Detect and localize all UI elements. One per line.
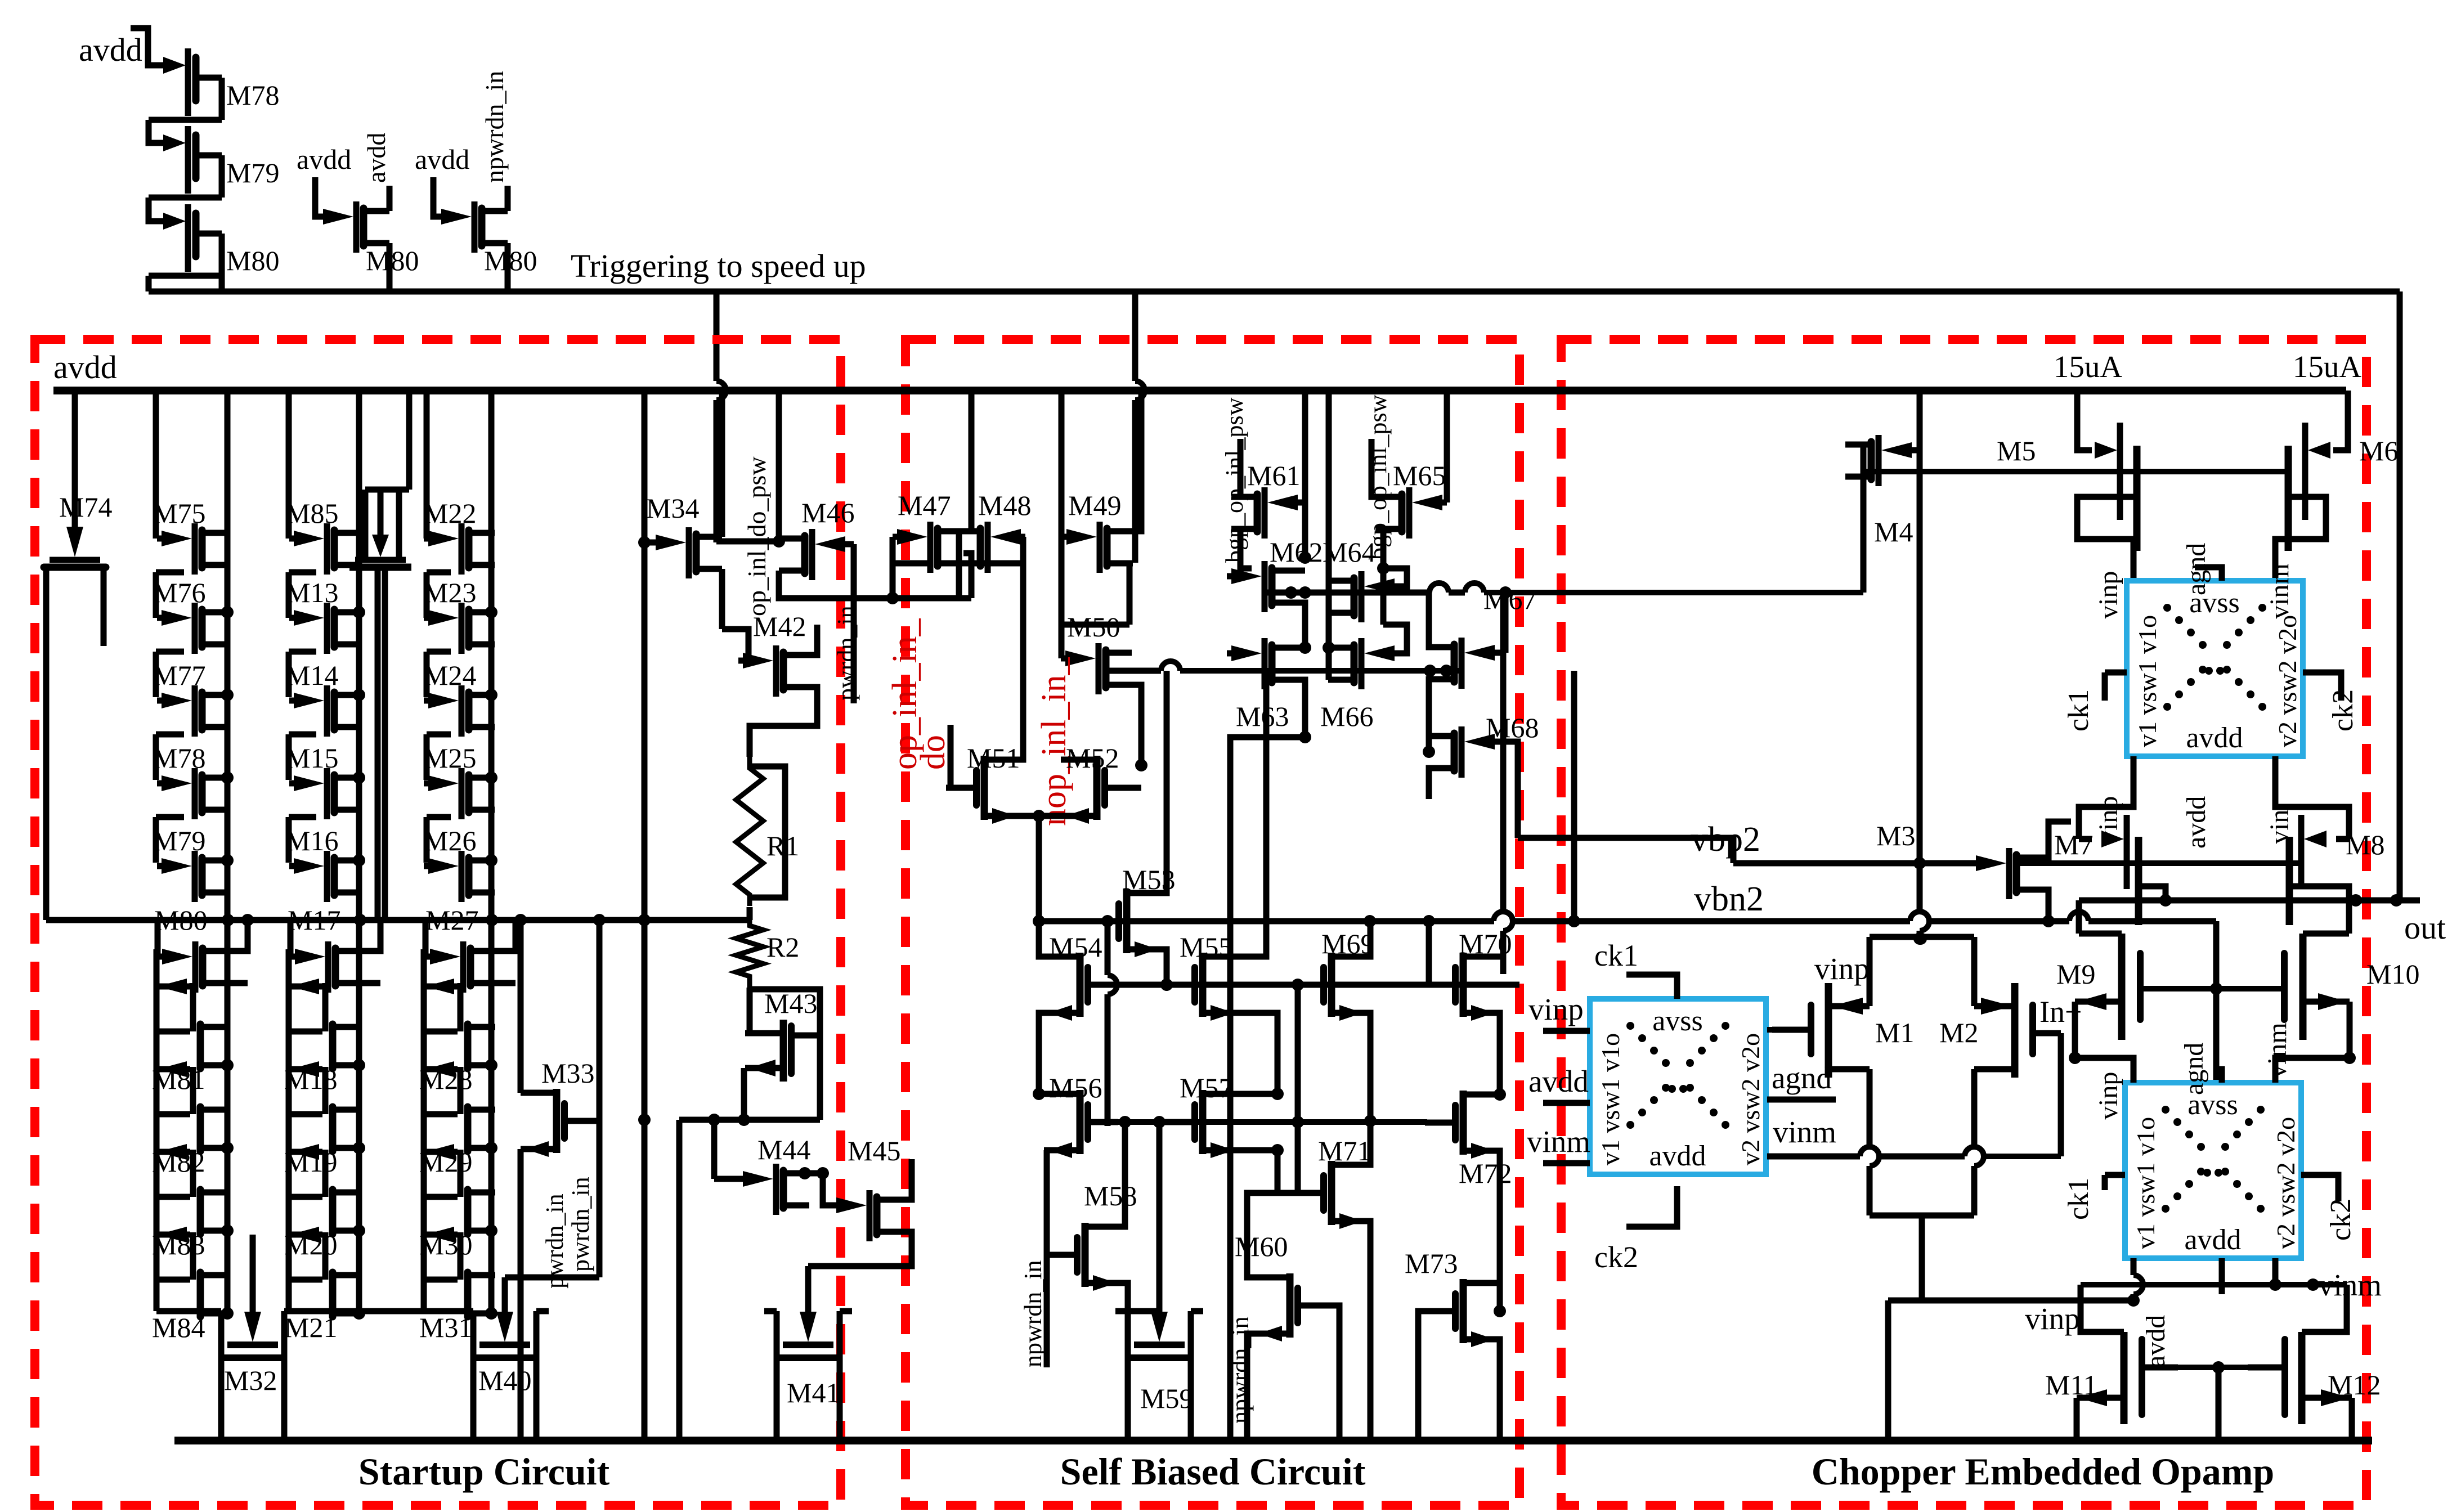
transistor M31 xyxy=(424,1232,458,1238)
wire M63 drain xyxy=(1272,645,1305,651)
svg-text:M4: M4 xyxy=(1874,516,1913,548)
transistor M45 xyxy=(832,1203,849,1209)
wire M18 gate vertical xyxy=(286,949,292,986)
wire M79 gate feedback xyxy=(149,198,151,221)
transistor M67 xyxy=(1482,650,1499,656)
wire M51 drain xyxy=(1020,537,1023,760)
transistor M70 xyxy=(1425,982,1453,988)
wire vinp stub chopper2 xyxy=(1543,1028,1590,1034)
wire M15 junction xyxy=(353,771,365,784)
wire M65 drain xyxy=(1371,439,1402,497)
wire M25 source loop xyxy=(427,814,451,820)
transistor M33 xyxy=(567,1118,595,1124)
wire M76 junction xyxy=(221,606,234,618)
transistor M6 xyxy=(2333,391,2348,450)
svg-text:ck2: ck2 xyxy=(1594,1240,1638,1274)
transistor M59 xyxy=(1156,1122,1163,1321)
wire M80 row leads xyxy=(158,920,170,957)
transistor M10 xyxy=(2299,934,2307,1040)
wire M85 gate from rail xyxy=(286,391,292,539)
svg-text:M62: M62 xyxy=(1270,536,1323,568)
transistor M14 xyxy=(289,698,306,704)
wire M23 junction xyxy=(485,606,497,618)
wire M43 gate hook xyxy=(750,989,820,1120)
wire M80c drain xyxy=(505,186,511,211)
svg-text:M3: M3 xyxy=(1876,820,1915,851)
transistor M77 xyxy=(157,698,174,704)
transistor M48 xyxy=(1008,534,1025,540)
wire M27 leads xyxy=(425,920,439,957)
wire M4 gate lead xyxy=(1916,447,1920,454)
svg-text:avdd: avdd xyxy=(415,143,469,175)
wire M66 source xyxy=(1329,677,1354,683)
transistor M29 xyxy=(424,1066,458,1073)
svg-text:vinm: vinm xyxy=(2265,563,2294,619)
transistor M71 xyxy=(1293,1190,1321,1196)
wire M67 gate lead xyxy=(1499,650,1505,656)
box Startup Circuit boundary xyxy=(35,339,841,1505)
chopper block 3 xyxy=(2125,1083,2301,1258)
svg-text:M44: M44 xyxy=(757,1134,810,1165)
wire ck2 lead chopper2 xyxy=(1626,1186,1677,1227)
svg-text:In+: In+ xyxy=(2039,995,2082,1029)
svg-text:v1 vsw1 v1o: v1 vsw1 v1o xyxy=(1596,1033,1625,1165)
svg-text:M58: M58 xyxy=(1084,1180,1137,1212)
svg-text:vbn2: vbn2 xyxy=(1694,880,1764,918)
wire M51 source xyxy=(1020,816,1039,921)
svg-text:Chopper Embedded Opamp: Chopper Embedded Opamp xyxy=(1812,1450,2275,1493)
wire startup bus xyxy=(46,917,750,923)
wire M21 drain join xyxy=(359,1311,360,1317)
wire M78 junction xyxy=(221,771,234,784)
wire M63 gate lead xyxy=(1227,650,1238,657)
wire M48 diode xyxy=(980,537,1023,563)
wire M70 source xyxy=(1463,1013,1500,1094)
wire M14 source loop xyxy=(289,732,316,738)
wire M18 drain join xyxy=(359,1062,360,1069)
svg-text:M50: M50 xyxy=(1067,611,1120,643)
wire M58 drain xyxy=(1085,1122,1125,1227)
transistor M55 xyxy=(1164,982,1193,988)
transistor M72 xyxy=(1425,1120,1453,1126)
svg-text:M79: M79 xyxy=(226,157,279,189)
wire M20 drain join xyxy=(359,1228,360,1234)
wire M55 source xyxy=(1239,1013,1277,1094)
svg-text:M5: M5 xyxy=(1997,435,2036,466)
transistor M44 xyxy=(738,1176,755,1182)
wire M56 source xyxy=(1044,1147,1047,1154)
wire M75 source loop xyxy=(156,569,184,576)
wire M11 source down xyxy=(2074,1398,2080,1441)
wire M71 drain xyxy=(1332,1121,1370,1165)
wire M65 source xyxy=(1383,529,1402,568)
wire M66 gate lead xyxy=(1383,625,1407,653)
svg-text:M12: M12 xyxy=(2328,1369,2381,1401)
svg-text:M66: M66 xyxy=(1320,701,1373,732)
svg-text:M56: M56 xyxy=(1049,1072,1102,1103)
wire vinm stub chopper2 xyxy=(1543,1160,1590,1166)
wire M70 drain xyxy=(1463,957,1503,974)
wire M31 drain join xyxy=(491,1311,495,1317)
svg-text:v2 vsw2 v2o: v2 vsw2 v2o xyxy=(2273,615,2302,747)
wire M72 drain xyxy=(1463,1092,1500,1098)
transistor M8 xyxy=(2336,836,2349,842)
transistor M40 xyxy=(502,1277,508,1321)
transistor M85b vertical xyxy=(406,391,413,490)
svg-text:avdd: avdd xyxy=(1649,1140,1706,1172)
svg-text:ck1: ck1 xyxy=(1594,939,1638,972)
svg-text:M77: M77 xyxy=(153,659,205,691)
wire M51 gate lead xyxy=(946,725,951,788)
wire M85 drain col to rail xyxy=(356,391,362,920)
wire M22 source loop xyxy=(427,569,451,576)
transistor M76 xyxy=(157,615,174,621)
transistor M57 xyxy=(1164,1119,1193,1125)
transistor M49 xyxy=(1062,534,1079,540)
transistor M65 xyxy=(1430,500,1447,506)
wire M23 source loop xyxy=(427,649,451,655)
svg-text:M23: M23 xyxy=(423,577,476,608)
svg-text:M79: M79 xyxy=(153,825,205,856)
wire M29 drain join xyxy=(491,1145,495,1151)
transistor M80 (third) xyxy=(437,214,454,220)
svg-text:M21: M21 xyxy=(284,1312,337,1343)
wire M81 col xyxy=(225,920,231,1313)
svg-text:npwrdn_in: npwrdn_in xyxy=(480,71,509,183)
wire M74 drain down xyxy=(43,645,50,920)
svg-text:M59: M59 xyxy=(1140,1383,1193,1414)
wire M83 drain join xyxy=(227,1228,228,1234)
wire M54 drain loop xyxy=(1039,921,1078,957)
wire M71 gate lead xyxy=(1277,1190,1293,1196)
svg-text:npwrdn_in: npwrdn_in xyxy=(1019,1260,1047,1367)
svg-text:M78: M78 xyxy=(153,742,205,774)
wire R1 bracket xyxy=(750,766,785,898)
wire M34 source xyxy=(719,569,725,629)
transistor M23 xyxy=(424,615,441,621)
wire M30 drain join xyxy=(491,1228,495,1234)
wire M24 source loop xyxy=(427,732,451,738)
wire M63 source xyxy=(1272,680,1305,737)
wire M61 source xyxy=(1240,529,1257,568)
svg-text:M84: M84 xyxy=(152,1312,205,1343)
wire M8 source xyxy=(2289,886,2349,900)
transistor M61 xyxy=(1285,500,1302,506)
transistor M26 xyxy=(424,863,441,869)
svg-text:out: out xyxy=(2404,909,2446,946)
transistor M80 (second) xyxy=(319,214,335,220)
transistor M11 xyxy=(2145,1365,2178,1371)
svg-text:avdd: avdd xyxy=(2186,722,2243,754)
transistor M79 xyxy=(157,863,174,869)
svg-text:M73: M73 xyxy=(1405,1248,1458,1279)
transistor M78 xyxy=(157,780,174,787)
svg-text:v1 vsw1 v1o: v1 vsw1 v1o xyxy=(2131,1117,2160,1249)
wire chopper3 br stub xyxy=(2272,1258,2279,1285)
wire M42 source xyxy=(750,687,817,757)
wire chopper3 bl stub xyxy=(2131,1258,2137,1275)
wire M57 drain loop xyxy=(1203,1091,1277,1097)
svg-text:M25: M25 xyxy=(423,742,476,774)
wire M45 source xyxy=(808,1232,912,1266)
wire M16 junction xyxy=(353,854,365,867)
wire M73 gate lead xyxy=(1418,1311,1425,1441)
transistor M50 xyxy=(1061,656,1078,662)
wire M46 gate lead xyxy=(850,541,854,548)
wire M42 drain xyxy=(809,625,817,655)
transistor M74 xyxy=(72,391,78,536)
node row1990 xyxy=(679,1117,820,1123)
wire M73 source xyxy=(1463,1339,1500,1441)
wire M69 source xyxy=(1332,1013,1370,1121)
svg-text:M61: M61 xyxy=(1247,460,1300,491)
wire M45 gate lead xyxy=(823,1173,832,1205)
wire M84 gate vertical xyxy=(154,1197,160,1235)
wire vbn2 xyxy=(1039,918,1494,925)
wire avdd stub chopper2 xyxy=(1543,1100,1590,1106)
wire M68 drain xyxy=(1429,733,1454,739)
wire M68 source xyxy=(1429,768,1454,799)
wire M72 source xyxy=(1463,1151,1500,1311)
wire v1o out chopper2 xyxy=(1767,1027,1808,1033)
wire M66M70 col xyxy=(1500,596,1507,912)
svg-text:M1: M1 xyxy=(1875,1017,1914,1048)
wire M17 row to M18 xyxy=(322,983,329,986)
wire M9M10 gate bus xyxy=(2140,986,2284,991)
wire chopper1 tc stub xyxy=(2195,567,2222,581)
svg-text:M22: M22 xyxy=(423,497,476,529)
wire M28 col xyxy=(488,920,495,1313)
svg-text:avdd: avdd xyxy=(53,349,117,385)
wire R2 to M43 drain xyxy=(747,988,753,1033)
transistor M75 xyxy=(157,536,174,542)
wire vinm out chopper2 xyxy=(1767,1154,1860,1160)
svg-text:vinp: vinp xyxy=(1814,952,1870,986)
svg-text:Self Biased Circuit: Self Biased Circuit xyxy=(1060,1450,1366,1493)
wire M12 source down xyxy=(2349,1398,2355,1441)
transistor M66 xyxy=(1382,650,1399,657)
svg-text:v1 vsw1 v1o: v1 vsw1 v1o xyxy=(2133,615,2162,747)
transistor M28 xyxy=(424,984,458,990)
wire M69 drain xyxy=(1332,921,1370,957)
wire M45 drain xyxy=(903,1159,912,1200)
wire M31 tail to M40 xyxy=(421,1279,427,1311)
wire M27 row to M28 xyxy=(458,983,464,986)
wire M58 source xyxy=(1121,1283,1159,1311)
wire M46 drain xyxy=(776,391,782,539)
svg-text:avdd: avdd xyxy=(1528,1064,1589,1098)
wire M17 leads xyxy=(290,920,303,957)
svg-text:M26: M26 xyxy=(423,825,476,856)
svg-text:M10: M10 xyxy=(2366,958,2419,990)
resistor R2 xyxy=(736,914,763,988)
wire M4 drain xyxy=(1863,445,1871,491)
wire M55 drain loop xyxy=(1203,671,1266,957)
wire M63 down xyxy=(1230,737,1305,1441)
svg-text:M49: M49 xyxy=(1068,490,1121,521)
wire M44 stubs xyxy=(809,1170,823,1177)
svg-text:agnd: agnd xyxy=(2179,1043,2209,1095)
wire M84 tail to M32 xyxy=(154,1279,160,1311)
wire ck2 lead chopper1 xyxy=(2303,672,2341,701)
transistor M52 xyxy=(1107,785,1135,791)
svg-text:M60: M60 xyxy=(1235,1231,1288,1262)
svg-text:M57: M57 xyxy=(1180,1072,1232,1103)
svg-text:pwrdn_in: pwrdn_in xyxy=(832,605,860,701)
svg-text:vinm: vinm xyxy=(1773,1115,1836,1149)
chopper block 2 xyxy=(1590,999,1766,1174)
wire M49 drain xyxy=(1133,391,1141,531)
transistor M7 xyxy=(2079,836,2092,842)
transistor M41 xyxy=(805,1266,812,1321)
wire M43 source down xyxy=(741,1068,747,1120)
svg-text:M76: M76 xyxy=(153,577,205,608)
transistor M18 xyxy=(289,984,322,990)
transistor M80 (row) xyxy=(158,954,174,960)
transistor M30 xyxy=(424,1149,458,1155)
wire M28 drain join xyxy=(491,1062,495,1069)
wire M54 source xyxy=(1039,1013,1044,1094)
wire M26 junction xyxy=(485,854,497,867)
svg-text:vbp2: vbp2 xyxy=(1691,820,1760,859)
wire M21 gate vertical xyxy=(286,1197,292,1235)
wire M81 drain join xyxy=(227,1062,228,1069)
wire M46 source xyxy=(779,571,839,598)
wire M75 gate from rail xyxy=(153,391,159,539)
wire M82 drain join xyxy=(227,1145,228,1151)
svg-text:vinp: vinp xyxy=(2025,1302,2080,1336)
wire M28 gate vertical xyxy=(421,949,427,986)
wire M60 source xyxy=(1247,1334,1254,1441)
svg-text:M78: M78 xyxy=(226,79,279,111)
wire M5 source xyxy=(2077,497,2137,581)
wire M71 col down xyxy=(1368,1311,1374,1441)
node op_inl_in_do bus xyxy=(839,595,971,602)
transistor M84 xyxy=(156,1232,190,1238)
transistor M68 xyxy=(1482,739,1499,745)
svg-text:pwrdn_in: pwrdn_in xyxy=(567,1177,594,1272)
transistor M25 xyxy=(424,780,441,787)
wire chopper3 tr stub xyxy=(2275,1058,2350,1083)
svg-text:M13: M13 xyxy=(285,577,338,608)
svg-text:avdd: avdd xyxy=(297,143,351,175)
wire M77 source loop xyxy=(156,732,184,738)
svg-text:M32: M32 xyxy=(224,1365,277,1396)
wire trigger tap 1 xyxy=(714,291,720,381)
wire M22 gate from rail xyxy=(424,391,430,539)
svg-text:ck1: ck1 xyxy=(2063,1178,2095,1220)
wire M60 gate lead xyxy=(1328,1305,1339,1441)
svg-text:M2: M2 xyxy=(1939,1017,1978,1048)
wire M24 junction xyxy=(485,689,497,701)
wire tap1 to M46 xyxy=(716,539,779,545)
chopper block 1 xyxy=(2127,581,2303,756)
svg-text:nop_inl_in_: nop_inl_in_ xyxy=(1035,657,1073,826)
transistor M27 xyxy=(425,954,442,960)
svg-text:M15: M15 xyxy=(285,742,338,774)
wire M73 drain xyxy=(1463,1280,1500,1286)
svg-text:avdd: avdd xyxy=(79,32,142,68)
wire M62 source xyxy=(1272,603,1305,648)
wire v2306 xyxy=(1295,985,1301,1122)
transistor M3 xyxy=(1971,860,1988,867)
wire M6 source xyxy=(2275,497,2326,581)
wire M13 junction xyxy=(353,606,365,618)
svg-text:M9: M9 xyxy=(2056,958,2095,990)
wire M66 drain xyxy=(1329,645,1354,651)
box Chopper Embedded Opamp boundary xyxy=(1561,339,2366,1505)
wire M80 loop xyxy=(219,234,225,291)
wire M61 drain xyxy=(1240,439,1257,497)
transistor M16 xyxy=(289,863,306,869)
wire chopper1 br stub xyxy=(2275,756,2349,839)
wire M81 gate vertical xyxy=(154,949,160,986)
wire v1968 xyxy=(1105,921,1111,975)
svg-text:M16: M16 xyxy=(285,825,338,856)
wire M80c source xyxy=(505,243,511,291)
transistor M51 xyxy=(946,785,974,791)
transistor M12 xyxy=(2248,1365,2281,1371)
wire M47M48 mid xyxy=(956,531,962,598)
wire M4 channel col xyxy=(1861,491,1867,593)
wire M52 gate lead xyxy=(1135,785,1141,791)
wire M44 gate xyxy=(714,1176,738,1182)
wire M34 gate lead xyxy=(644,391,651,542)
wire M57 source xyxy=(1239,1150,1277,1193)
wire M50 source xyxy=(1131,685,1141,765)
wire vbp2 xyxy=(1733,860,1971,867)
wire chopper3 tl stub xyxy=(2075,1058,2133,1083)
svg-text:Triggering to speed up: Triggering to speed up xyxy=(571,248,866,284)
svg-text:M31: M31 xyxy=(419,1312,472,1343)
resistor R1 xyxy=(736,757,763,906)
svg-text:M45: M45 xyxy=(848,1135,900,1166)
wire lower col1 to M32 xyxy=(221,1311,227,1317)
wire ground rail xyxy=(174,1437,2372,1444)
transistor M64 xyxy=(1382,584,1399,590)
svg-text:15uA: 15uA xyxy=(2054,349,2123,384)
transistor M34 xyxy=(651,540,668,546)
wire M14 junction xyxy=(353,689,365,701)
wire M78 source loop xyxy=(156,814,184,820)
wire M84 drain join xyxy=(227,1311,228,1317)
wire M33 source xyxy=(518,1149,524,1441)
wire In+ gate down xyxy=(2058,1033,2064,1156)
wire tail join xyxy=(1870,1213,1974,1219)
wire M7M8 gate bus xyxy=(2018,860,2301,866)
svg-text:R2: R2 xyxy=(766,931,799,963)
wire chopper1 bl stub xyxy=(2079,756,2133,839)
wire M78 gate feedback xyxy=(149,120,151,143)
node M54 M55 gate row xyxy=(1090,982,1519,988)
transistor M53 xyxy=(1088,918,1117,925)
wire M83 gate vertical xyxy=(154,1115,160,1152)
wire M1M2 top loop xyxy=(1870,934,1974,940)
svg-text:M7: M7 xyxy=(2054,829,2093,860)
svg-text:avdd: avdd xyxy=(362,133,391,183)
transistor M79 xyxy=(151,140,164,146)
wire M82 gate vertical xyxy=(154,1032,160,1069)
wire M80b drain xyxy=(387,186,393,211)
svg-text:M14: M14 xyxy=(285,659,338,691)
transistor M20 xyxy=(289,1149,322,1155)
transistor M43 xyxy=(780,1020,787,1082)
wire M48 gate lead xyxy=(1023,534,1025,540)
wire M2 tail xyxy=(1971,1069,1978,1147)
wire M85 source loop xyxy=(289,569,316,576)
wire M31 gate vertical xyxy=(421,1197,427,1235)
transistor M9 xyxy=(2118,934,2126,1040)
